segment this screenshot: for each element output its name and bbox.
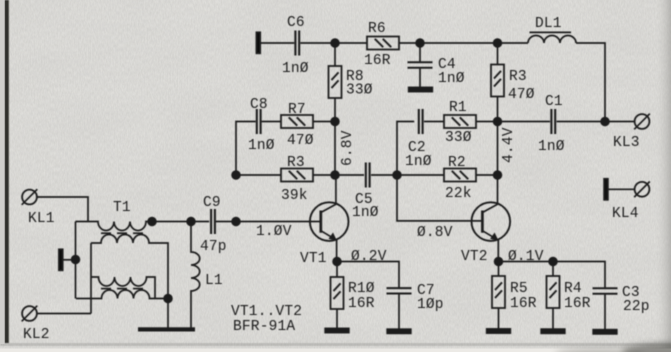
svg-text:C9: C9 bbox=[203, 195, 221, 211]
svg-text:VT1..VT2: VT1..VT2 bbox=[231, 304, 302, 320]
terminal KL1 bbox=[22, 189, 55, 227]
terminal KL4 bbox=[604, 179, 650, 222]
svg-text:1nØ: 1nØ bbox=[248, 138, 275, 154]
resistor R1 bbox=[444, 100, 476, 146]
wire R2 row bbox=[397, 174, 444, 176]
ground under T1 bbox=[138, 327, 195, 331]
terminal KL2 bbox=[22, 306, 50, 343]
svg-text:R7: R7 bbox=[288, 102, 306, 118]
resistor R7 bbox=[281, 102, 314, 149]
wire supply bar to C6 bbox=[261, 42, 295, 44]
wire C6 to R6 bbox=[300, 42, 367, 44]
svg-text:T1: T1 bbox=[113, 200, 131, 216]
wire KL2 to T1 bbox=[37, 313, 91, 315]
svg-text:BFR-91A: BFR-91A bbox=[233, 319, 295, 335]
ground under R5 bbox=[487, 329, 511, 333]
resistor R4 bbox=[547, 262, 591, 330]
capacitor C8 bbox=[248, 97, 275, 154]
wire 4.4V rail bbox=[498, 122, 518, 176]
wire R7 to 6.8V rail bbox=[313, 121, 335, 123]
node: base divider left bbox=[232, 171, 240, 179]
svg-text:22p: 22p bbox=[623, 299, 650, 315]
ground under C7 bbox=[387, 329, 411, 333]
wire C9 to VT1 base bbox=[216, 221, 321, 223]
wire C5 to VT2 base node bbox=[371, 174, 397, 176]
ground under R10 bbox=[325, 328, 349, 332]
node: top line T1 right bbox=[148, 218, 156, 226]
node: T1 output junction bbox=[164, 295, 172, 303]
wire to C1 bbox=[498, 121, 551, 123]
inductor L1 bbox=[191, 222, 223, 329]
resistor R8 bbox=[329, 43, 373, 122]
svg-text:47p: 47p bbox=[200, 239, 227, 255]
wire VT2 emitter bbox=[497, 240, 499, 262]
svg-text:L1: L1 bbox=[205, 273, 223, 289]
wire C2 to R1 bbox=[424, 121, 444, 123]
capacitor C4 bbox=[408, 43, 465, 88]
svg-text:VT2: VT2 bbox=[461, 249, 488, 265]
node: R4 junction bbox=[549, 258, 557, 266]
capacitor C5 bbox=[352, 163, 379, 222]
node: L1 top bbox=[187, 218, 195, 226]
svg-text:47Ø: 47Ø bbox=[508, 87, 535, 103]
svg-text:6.8V: 6.8V bbox=[340, 130, 356, 166]
svg-text:R1: R1 bbox=[449, 100, 467, 116]
svg-text:4.4V: 4.4V bbox=[501, 127, 517, 163]
wire C8/R7 left corner bbox=[236, 122, 256, 176]
svg-text:R6: R6 bbox=[368, 21, 386, 37]
capacitor C1 bbox=[538, 94, 565, 155]
node: R3 top junction bbox=[494, 39, 502, 47]
svg-text:1.ØV: 1.ØV bbox=[256, 224, 292, 240]
terminal bar at supply input bbox=[256, 32, 260, 53]
svg-text:Ø.8V: Ø.8V bbox=[417, 225, 453, 241]
wire emitter VT2 row bbox=[499, 262, 606, 289]
node: C4 junction bbox=[416, 39, 424, 47]
resistor R2 bbox=[444, 155, 476, 202]
wire R1 to 4.4V rail bbox=[476, 121, 498, 123]
ground under R4 bbox=[541, 329, 565, 333]
node: tap junction bbox=[72, 256, 80, 264]
node: emitter VT1 bbox=[333, 249, 387, 265]
svg-text:33Ø: 33Ø bbox=[346, 83, 373, 99]
node: collector VT1 junction bbox=[331, 171, 339, 179]
svg-text:R4: R4 bbox=[564, 281, 582, 297]
svg-text:16R: 16R bbox=[364, 53, 391, 69]
wire VT1 emitter bbox=[336, 240, 338, 262]
wire R3b to collector rail bbox=[313, 174, 364, 176]
resistor R5 bbox=[492, 262, 537, 330]
transformer T1 bbox=[76, 200, 210, 314]
capacitor C7 bbox=[387, 283, 444, 330]
inductor DL1 bbox=[528, 16, 576, 43]
wire R6 to DL1 bbox=[399, 42, 528, 44]
svg-text:1nØ: 1nØ bbox=[352, 205, 379, 221]
svg-text:1Øp: 1Øp bbox=[417, 297, 444, 313]
capacitor C6 bbox=[282, 15, 309, 77]
svg-text:Ø.2V: Ø.2V bbox=[351, 249, 387, 265]
type annotation bbox=[231, 304, 302, 335]
ground under C4 bbox=[409, 87, 433, 91]
wire KL1 to T1 bbox=[37, 197, 88, 222]
svg-text:C1: C1 bbox=[545, 94, 563, 110]
svg-text:KL3: KL3 bbox=[613, 135, 640, 151]
svg-text:C8: C8 bbox=[250, 97, 268, 113]
capacitor C9 bbox=[200, 195, 227, 255]
svg-text:DL1: DL1 bbox=[535, 16, 562, 32]
svg-text:47Ø: 47Ø bbox=[287, 133, 314, 149]
wire VT2 collector bbox=[497, 175, 499, 205]
svg-text:33Ø: 33Ø bbox=[445, 130, 472, 146]
wire VT1 collector bbox=[335, 175, 337, 205]
resistor R3 (39k) bbox=[281, 155, 313, 204]
svg-text:1nØ: 1nØ bbox=[405, 154, 432, 170]
node: R2/collector VT2 bbox=[494, 171, 502, 179]
wire R2 to 4.4V rail bbox=[476, 174, 498, 176]
node: KL3 junction bbox=[601, 118, 609, 126]
svg-text:16R: 16R bbox=[564, 296, 591, 312]
wire R3b left from node bbox=[236, 174, 281, 176]
svg-text:C6: C6 bbox=[287, 15, 305, 31]
svg-text:KL4: KL4 bbox=[612, 206, 639, 222]
svg-text:Ø.1V: Ø.1V bbox=[508, 249, 544, 265]
capacitor C3 bbox=[593, 285, 650, 331]
node: R1/C1/R3 junction bbox=[494, 118, 502, 126]
node: C5/R2/base VT2 bbox=[393, 171, 401, 179]
node: C6/R6/R8 junction bbox=[331, 39, 339, 47]
terminal KL3 bbox=[613, 114, 650, 151]
svg-text:KL1: KL1 bbox=[28, 211, 55, 227]
transistor VT2 bbox=[461, 202, 510, 265]
svg-text:16R: 16R bbox=[348, 296, 375, 312]
svg-text:1nØ: 1nØ bbox=[438, 71, 465, 87]
svg-text:1nØ: 1nØ bbox=[282, 61, 309, 77]
wire C2/R1 left corner bbox=[397, 122, 414, 176]
node: R8/R7 junction bbox=[331, 118, 339, 126]
svg-text:R3: R3 bbox=[509, 69, 527, 85]
transistor VT1 bbox=[300, 202, 349, 267]
capacitor C2 bbox=[405, 109, 432, 170]
resistor R6 bbox=[364, 21, 399, 69]
resistor R10 bbox=[331, 262, 375, 330]
svg-text:16R: 16R bbox=[510, 296, 537, 312]
svg-text:R5: R5 bbox=[510, 281, 528, 297]
wire T1 to ground bbox=[167, 299, 169, 329]
svg-text:R2: R2 bbox=[448, 155, 466, 171]
node: bias junction at base bbox=[232, 218, 292, 240]
label 0.8V bbox=[417, 225, 453, 241]
wire DL1 to corner bbox=[576, 43, 605, 122]
svg-text:VT1: VT1 bbox=[300, 251, 327, 267]
wire VT2 base from C5 node bbox=[397, 175, 482, 221]
centre tap bar of T1 bbox=[59, 222, 76, 299]
svg-text:39k: 39k bbox=[281, 188, 308, 204]
wire C1 to KL3 bbox=[557, 121, 635, 123]
svg-text:22k: 22k bbox=[445, 186, 472, 202]
wire emitter row to C7 bbox=[337, 262, 399, 289]
wire C8 to R7 bbox=[262, 121, 281, 123]
resistor R3 (470) bbox=[491, 43, 535, 122]
node: emitter VT2 bbox=[495, 249, 544, 265]
wire 6.8V rail bbox=[335, 122, 356, 176]
svg-text:R3: R3 bbox=[287, 155, 305, 171]
svg-text:KL2: KL2 bbox=[23, 327, 50, 343]
svg-text:1nØ: 1nØ bbox=[538, 139, 565, 155]
ground under C3 bbox=[593, 330, 617, 334]
svg-text:R1Ø: R1Ø bbox=[348, 281, 375, 297]
